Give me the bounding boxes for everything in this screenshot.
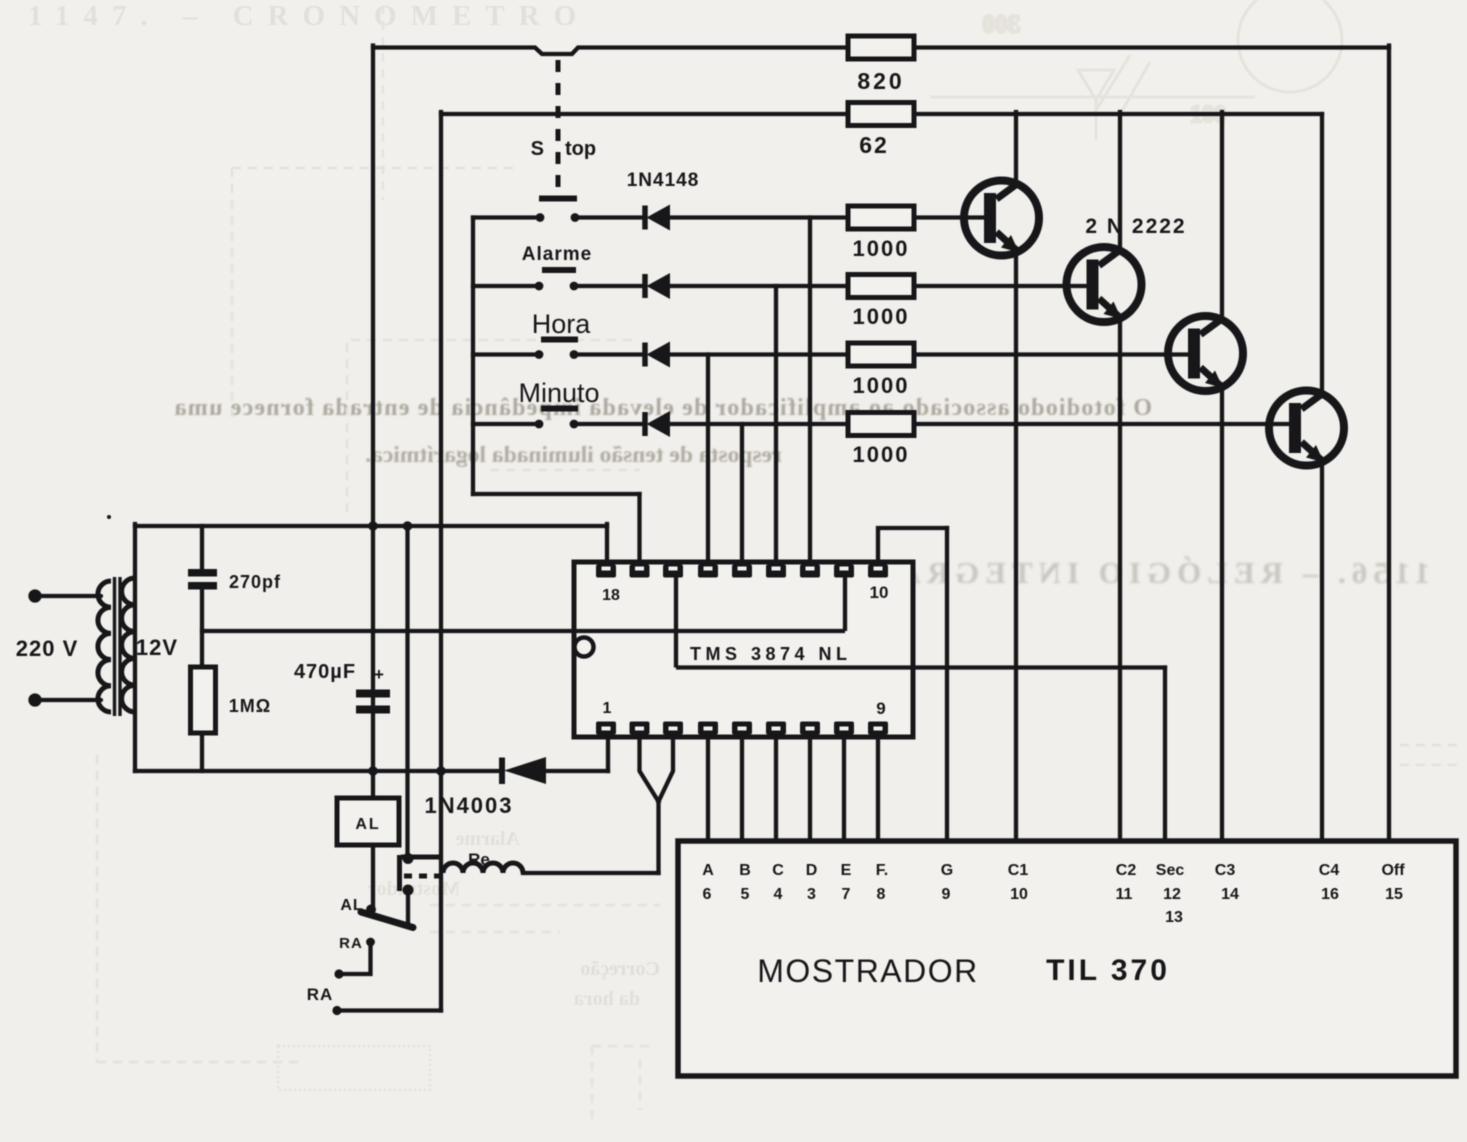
svg-text:E: E <box>841 862 852 879</box>
ghost mirrored paragraph line 1 (show-through from reverse page) <box>173 395 1152 468</box>
resistor 62 <box>848 103 914 126</box>
wire: Alarme row switch to diode <box>574 284 645 288</box>
diode D4 1N4148 Minuto <box>645 411 670 437</box>
wire: Re line from coil to V-join <box>523 871 659 875</box>
svg-text:12V: 12V <box>136 635 178 660</box>
wire: C4 column above Q4 <box>1320 114 1324 394</box>
wire: Stop tap down to IC pin 12 <box>808 218 812 564</box>
wire: IC pin 3 stub joining V <box>659 736 674 802</box>
svg-text:220 V: 220 V <box>16 636 79 661</box>
transformer T1 secondary winding <box>122 578 135 712</box>
transistor Q2 2N2222 <box>1067 247 1142 322</box>
svg-text:MOSTRADOR: MOSTRADOR <box>757 953 979 989</box>
node V-join vertical down to Re line <box>656 800 660 873</box>
junction dot (373,771) <box>368 766 378 776</box>
wire: bottom rail y=771 left of 1N4003 <box>135 769 501 773</box>
relay switch arm <box>361 912 413 928</box>
svg-text:5: 5 <box>741 886 750 903</box>
svg-text:Alarme: Alarme <box>522 244 592 265</box>
wire: pin 10 loop up and right <box>878 528 947 562</box>
Minuto switch contact dots <box>535 420 544 429</box>
wire: Minuto row left of switch <box>473 422 539 426</box>
wire: switch bus horizontal y=494 <box>473 492 640 496</box>
wire: G column vertical x=944 down to display <box>945 528 949 841</box>
wire: Alarme row resistor to Q2 base <box>914 284 1088 288</box>
wire: 270pf top connection <box>200 526 204 570</box>
svg-text:2 N 2222: 2 N 2222 <box>1085 215 1186 238</box>
svg-text:1: 1 <box>603 700 612 717</box>
wire: C4 column Q4 emitter down to display <box>1320 462 1324 841</box>
resistor 1000 (Stop row) <box>848 206 914 229</box>
svg-text:7: 7 <box>842 886 851 903</box>
svg-text:Sec: Sec <box>1156 862 1185 879</box>
svg-text:AL: AL <box>355 816 380 833</box>
relay moving contact stub <box>406 892 410 923</box>
wire: IC pin 9 to display F <box>876 736 880 841</box>
Alarme switch contact dots <box>535 282 544 291</box>
svg-text:1000: 1000 <box>853 304 910 329</box>
wire: Hora row left of switch <box>473 352 539 356</box>
svg-text:15: 15 <box>1385 886 1403 903</box>
svg-text:RA: RA <box>307 985 334 1004</box>
svg-text:Minuto: Minuto <box>518 378 599 408</box>
wire: Alarme tap down to IC pin 13 <box>774 286 778 563</box>
transistor Q1 2N2222 <box>964 181 1039 256</box>
resistor 820 <box>848 36 914 59</box>
svg-text:13: 13 <box>1165 909 1183 926</box>
wire: C1 column Q1 emitter down to display <box>1014 252 1018 841</box>
IC U1 internal line y=667.5 redraw <box>676 665 911 669</box>
svg-text:1000: 1000 <box>853 442 910 467</box>
IC U1 internal line y=631 redraw <box>576 629 845 633</box>
wire: RA bottom horizontal <box>337 1008 441 1012</box>
wire: Alarme row left of switch <box>473 284 539 288</box>
wire: oscillator line y=631 from cap node into IC pin 11 <box>202 629 845 633</box>
relay AL coil box <box>337 798 399 845</box>
Minuto switch bar <box>541 406 578 412</box>
svg-text:8: 8 <box>877 886 886 903</box>
wire: +V top rail right of 820 resistor to Off column <box>914 45 1389 49</box>
diode D2 1N4148 Alarme <box>645 273 670 299</box>
svg-text:A: A <box>702 862 714 879</box>
relay fixed contact dot <box>403 853 414 864</box>
wire: Minuto tap down to IC pin 14 <box>740 424 744 563</box>
wire: Minuto row switch to diode <box>574 422 645 426</box>
svg-text:D: D <box>806 862 818 879</box>
wire: Sec column vertical x=1165 down to display <box>1163 668 1167 842</box>
junction dot (407.5,526) <box>403 521 413 531</box>
svg-text:4: 4 <box>774 886 783 903</box>
svg-text:14: 14 <box>1221 886 1239 903</box>
wire: Hora tap down to IC pin 15 <box>706 355 710 564</box>
wire: Stop row left of switch <box>473 215 540 219</box>
svg-text:TMS 3874 NL: TMS 3874 NL <box>690 644 852 664</box>
wire: relay pole x=407.5 <box>405 528 409 857</box>
svg-text:Correção: Correção <box>580 958 660 980</box>
Alarme switch bar <box>542 267 576 273</box>
svg-text:Alarme: Alarme <box>455 828 520 850</box>
capacitor 270pf <box>188 569 217 590</box>
svg-text:Hora: Hora <box>532 309 592 339</box>
RA upper terminal wire <box>339 944 371 974</box>
wire: stub up into IC pin 1 <box>606 736 610 771</box>
svg-text:TIL 370: TIL 370 <box>1046 954 1170 987</box>
svg-text:1N4003: 1N4003 <box>424 793 513 818</box>
svg-text:1000: 1000 <box>853 236 910 261</box>
svg-text:300: 300 <box>983 11 1021 38</box>
wire: IC pin 5 to display B <box>740 736 744 841</box>
svg-text:C3: C3 <box>1215 862 1236 879</box>
wire: C2 column above Q2 <box>1118 112 1122 251</box>
transistor Q4 2N2222 <box>1269 391 1344 466</box>
IC U1 internal vertical pin11 redraw <box>843 577 847 631</box>
ghost mirrored heading RELOGIO INTEGRADO (show-through) <box>834 555 1430 590</box>
wire: bottom rail y=771 right of 1N4003 to pin1 corner <box>546 769 608 773</box>
svg-text:1000: 1000 <box>853 373 910 398</box>
wire: 1M resistor bottom connection <box>200 733 204 771</box>
RA upper left dot <box>334 969 343 978</box>
svg-text:C: C <box>772 862 784 879</box>
wire: 12V secondary top rail y=526 <box>135 524 607 528</box>
svg-text:12: 12 <box>1163 886 1181 903</box>
svg-text:6: 6 <box>703 886 712 903</box>
IC U1 internal vertical pin16 redraw <box>674 577 678 668</box>
resistor 1000 (Alarme row) <box>848 275 914 298</box>
svg-text:1156. – RELÓGIO INTEGRADO: 1156. – RELÓGIO INTEGRADO <box>834 555 1430 590</box>
svg-text:da hora: da hora <box>574 988 640 1010</box>
svg-text:Re: Re <box>468 850 490 869</box>
svg-text:3: 3 <box>807 886 816 903</box>
wire: C2 column Q2 emitter down to display <box>1118 319 1122 842</box>
svg-text:AL: AL <box>340 897 363 914</box>
AL arm pivot dot <box>366 905 376 915</box>
svg-text:62: 62 <box>859 132 889 158</box>
wire: IC pin 6 to display C <box>774 736 778 841</box>
svg-text:S: S <box>531 138 544 160</box>
IC U1 TMS3874NL body <box>574 562 913 737</box>
svg-text:C1: C1 <box>1008 862 1029 879</box>
wire: stub into IC pin 18 <box>605 524 609 562</box>
relay fixed contact bracket <box>400 855 442 891</box>
wire: IC internal vertical to pin 11 <box>843 576 847 633</box>
paper speck <box>107 515 111 519</box>
svg-text:10: 10 <box>870 583 889 602</box>
wire: long vertical rail x=441 from y=114 down to RA line <box>439 112 443 1011</box>
diode D3 1N4148 Hora <box>645 342 670 368</box>
transistor Q3 2N2222 <box>1168 316 1243 391</box>
IC U1 bottom pins 1..9 <box>596 722 888 735</box>
Stop switch bar <box>539 196 577 202</box>
capacitor 470uF <box>356 690 390 714</box>
svg-text:1N4148: 1N4148 <box>627 170 700 191</box>
svg-text:16: 16 <box>1321 886 1339 903</box>
svg-text:Off: Off <box>1381 862 1405 879</box>
svg-text:9: 9 <box>876 699 885 718</box>
IC U1 index notch <box>575 638 594 657</box>
IC U1 top pins 18..10 <box>596 565 888 578</box>
wire: x=373 rail lower section to AL box (redraw over) <box>371 526 375 909</box>
Hora switch bar <box>541 337 578 343</box>
svg-text:C4: C4 <box>1319 862 1340 879</box>
wire: Minuto row resistor to Q4 base <box>914 422 1292 426</box>
svg-text:1147. – CRONOMETRO: 1147. – CRONOMETRO <box>28 0 590 32</box>
svg-text:G: G <box>941 862 953 879</box>
wire: Stop row switch to diode <box>575 215 645 219</box>
transformer T1 primary winding <box>98 581 111 712</box>
wire: node between 270pf and 1M resistor <box>200 589 204 667</box>
wire: Alarme row diode to 1000 resistor <box>670 284 848 288</box>
svg-text:9: 9 <box>942 886 951 903</box>
wire: IC pin 8 to display E <box>842 736 846 841</box>
ghost circuit top-right (show-through) <box>383 0 1342 200</box>
wire: IC pin 7 to display D <box>808 736 812 841</box>
Hora switch contact dots <box>535 350 544 359</box>
relay moving contact dot <box>403 885 414 896</box>
wire: Hora row diode to 1000 resistor <box>670 352 848 356</box>
resistor 1000 (Minuto row) <box>848 413 914 436</box>
svg-text:+: + <box>374 665 384 684</box>
svg-text:270pf: 270pf <box>229 572 281 592</box>
RA upper dot <box>366 938 375 947</box>
wire: Stop row resistor to Q1 base <box>914 215 986 219</box>
RA lower dot <box>332 1006 341 1015</box>
wire: Minuto row diode to 1000 resistor <box>670 422 848 426</box>
svg-text:RA: RA <box>339 935 363 952</box>
svg-text:820: 820 <box>857 68 904 94</box>
diode D1 1N4148 Stop <box>645 205 670 231</box>
wire: C1 column above Q1 <box>1014 112 1018 184</box>
transformer T1 core <box>115 577 121 716</box>
wire: IC pin 4 to display A <box>706 736 710 841</box>
diode D5 1N4003 <box>502 757 546 784</box>
svg-text:18: 18 <box>602 587 620 604</box>
wire: left vertical rail x=373 <box>371 46 375 527</box>
svg-text:470µF: 470µF <box>294 661 356 683</box>
svg-text:11: 11 <box>1116 886 1133 903</box>
relay mechanical dashes <box>404 874 439 879</box>
resistor 1000 (Hora row) <box>848 343 914 366</box>
wire: second rail y=114 right of 62 resistor to C4 column corner <box>914 112 1322 116</box>
transformer T1 primary terminal top <box>31 592 102 705</box>
svg-text:top: top <box>565 138 596 160</box>
relay coil Re <box>443 863 523 873</box>
junction dot (373,526) <box>368 521 378 531</box>
wire: Hora row switch to diode <box>574 352 645 356</box>
junction dot (441,771) <box>436 766 446 776</box>
wire: C3 column Q3 emitter down to display <box>1220 388 1224 842</box>
wire: transformer secondary left vertical x=135 <box>133 524 137 771</box>
resistor 1M <box>191 667 216 733</box>
svg-text:1MΩ: 1MΩ <box>229 696 271 716</box>
wire: switch bus vertical x=473 <box>471 218 475 495</box>
wire: C3 column above Q3 <box>1220 112 1224 320</box>
wire: line y=667.5 from pin16 out to Sec column <box>676 665 1165 669</box>
wire: IC internal vertical from pin 16 <box>674 564 678 668</box>
wire: second rail y=114 left of 62 resistor <box>441 112 848 116</box>
wire: Hora row resistor to Q3 base <box>914 352 1190 356</box>
svg-text:F.: F. <box>876 862 888 879</box>
Stop switch contact dots <box>536 213 545 222</box>
svg-text:10: 10 <box>1010 886 1028 903</box>
wire: +V top rail y=47 with hop dip <box>373 48 848 55</box>
wire: Stop row diode to 1000 resistor <box>670 215 848 219</box>
ghost dashed boxes left (show-through) <box>97 168 1460 1120</box>
dashed Stop pushbutton link <box>556 60 561 197</box>
svg-text:B: B <box>739 862 751 879</box>
wire: Off column x=1389 <box>1387 46 1391 842</box>
transformer T1 primary terminal bottom <box>36 698 101 702</box>
svg-text:C2: C2 <box>1116 862 1137 879</box>
svg-text:resposta de tensão iluminada l: resposta de tensão iluminada logarítmica… <box>365 442 782 468</box>
wire: IC pin 2 stub joining V <box>640 736 659 802</box>
svg-text:Mostrador: Mostrador <box>368 878 460 900</box>
wire: stub into IC pin 17 <box>637 494 641 562</box>
display MOSTRADOR TIL370 box <box>678 841 1456 1076</box>
